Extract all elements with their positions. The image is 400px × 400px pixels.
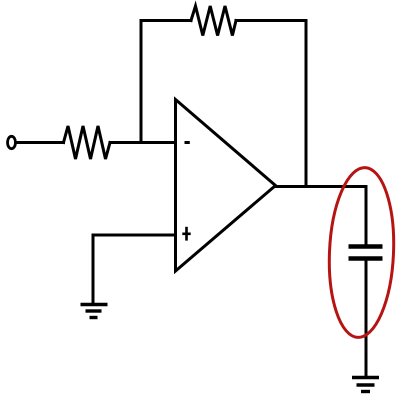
ground right [352, 378, 379, 392]
wire feedback top left [141, 19, 191, 22]
wire input right [110, 141, 176, 144]
minus pin label [185, 141, 190, 144]
wire input left [16, 141, 64, 144]
wire capacitor to ground [365, 261, 368, 378]
wire feedback left vertical [140, 21, 143, 143]
op-amp U1 [176, 100, 276, 272]
wire output vertical [365, 187, 368, 246]
ground left [81, 305, 108, 318]
plus pin label [182, 227, 190, 241]
wire feedback right vertical [305, 21, 308, 187]
resistor R1 [64, 126, 111, 159]
wire noninverting input [93, 235, 176, 303]
annotation red ellipse [326, 166, 397, 339]
input terminal [8, 136, 16, 148]
capacitor C1 [349, 247, 383, 259]
wire output [276, 185, 367, 188]
resistor R2 [191, 6, 236, 36]
wire feedback top right [236, 19, 306, 22]
